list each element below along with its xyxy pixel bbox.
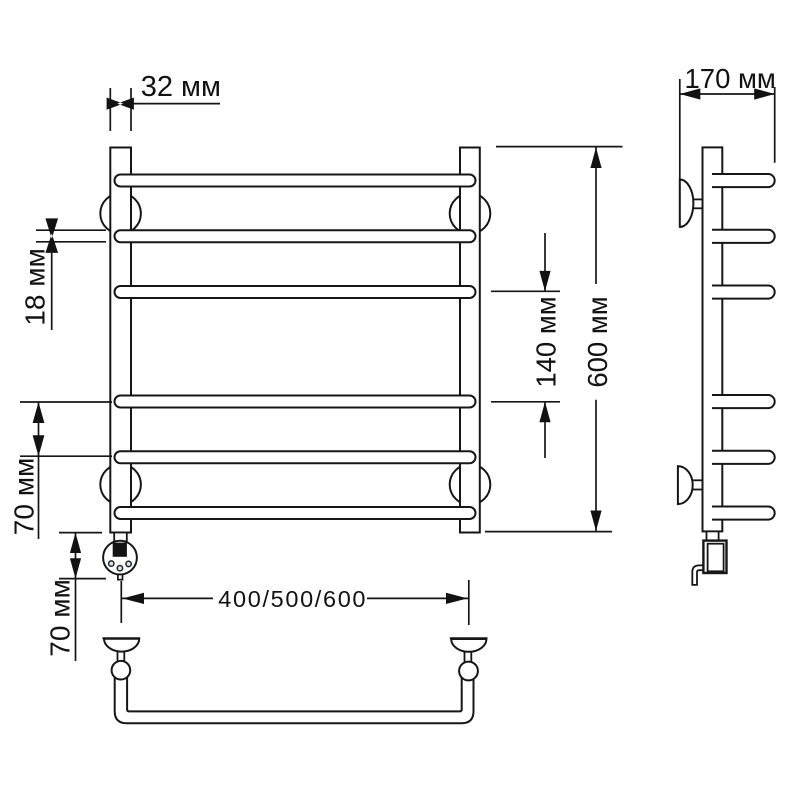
dim 400/500/600 dimension line left part xyxy=(121,597,213,599)
side view: top wall dome neck xyxy=(692,199,704,208)
wall bracket top-left xyxy=(100,193,141,234)
dim 140mm arrowhead up xyxy=(539,402,550,422)
dim 32mm extension line right xyxy=(130,88,132,131)
bottom view: left dome bowl xyxy=(104,639,139,652)
dim 32mm extension line left xyxy=(109,88,111,131)
svg-text:18 мм: 18 мм xyxy=(20,248,51,325)
dim 170mm extension line left xyxy=(679,79,681,180)
wall bracket bottom-right xyxy=(450,464,491,505)
bottom view: right dome top plate xyxy=(450,637,488,639)
bottom view: left pivot ball xyxy=(112,661,131,680)
dim 32mm leader line xyxy=(133,103,220,105)
dim 400/500/600 extension line right xyxy=(468,580,470,625)
side view bar 6 xyxy=(712,507,775,520)
indicator dot left xyxy=(109,561,114,566)
side view bar 4 xyxy=(712,395,775,408)
dim 140mm lower tail xyxy=(544,402,546,458)
svg-text:400/500/600: 400/500/600 xyxy=(218,586,367,612)
dim 600mm arrowhead up xyxy=(590,148,601,169)
dim 70mm#1 extension line top xyxy=(20,401,112,403)
wall bracket bottom-left xyxy=(100,464,141,505)
dim 170mm extension line right xyxy=(774,87,776,163)
dim 18mm extension line bottom xyxy=(36,241,106,243)
dim 70mm#1 extension line bottom xyxy=(20,455,112,457)
svg-text:600 мм: 600 мм xyxy=(582,296,613,387)
dim 18mm arrowhead pair (bowtie) xyxy=(45,218,58,253)
svg-text:70 мм: 70 мм xyxy=(44,579,75,656)
bottom view: left dome neck xyxy=(118,650,125,662)
side view: power cable xyxy=(692,565,703,585)
dim 170mm arrowhead left xyxy=(680,88,701,99)
dim 70mm#2 arrowhead up xyxy=(70,533,81,553)
bar 5 xyxy=(115,451,476,463)
bar 2 xyxy=(115,230,476,242)
dim 170mm dimension line xyxy=(680,93,775,95)
bottom view: right pivot ball xyxy=(459,662,478,681)
bar 1 xyxy=(115,175,476,187)
heating element black cap xyxy=(113,543,127,557)
dim 70mm#2 arrowhead down xyxy=(70,558,81,578)
left vertical rail xyxy=(110,148,131,533)
side view: bottom wall dome neck xyxy=(692,480,704,489)
dim 140mm arrowhead down xyxy=(539,271,550,291)
side view: heater body inner xyxy=(708,544,724,572)
dim 400/500/600 arrowhead left xyxy=(123,593,145,604)
dim 70mm#2 extension line top xyxy=(59,532,102,534)
wall bracket top-right xyxy=(450,193,491,234)
svg-text:32 мм: 32 мм xyxy=(141,71,221,103)
svg-text:170 мм: 170 мм xyxy=(685,63,776,94)
side view bar 3 xyxy=(712,286,775,299)
side view: heater neck xyxy=(707,531,719,540)
dim 140mm extension line bottom xyxy=(491,401,560,403)
side view bar 1 xyxy=(712,174,775,187)
svg-text:140 мм: 140 мм xyxy=(531,296,562,387)
dim 400/500/600 dimension line right part xyxy=(367,597,469,599)
dim 32mm arrowhead pair (bowtie) xyxy=(107,98,134,110)
dim 600mm arrowhead down xyxy=(590,511,601,532)
side view: rail profile xyxy=(703,147,723,531)
dim 70mm#2 dimension line xyxy=(75,533,77,661)
side view bar 2 xyxy=(712,230,775,243)
bottom view: right dome bowl xyxy=(451,639,486,652)
svg-text:70 мм: 70 мм xyxy=(9,458,40,535)
bottom view: bar tube inner edge xyxy=(127,677,462,711)
heater neck (front) xyxy=(114,533,127,542)
dim 18mm extension line top xyxy=(36,229,106,231)
dim 170mm arrowhead right xyxy=(754,88,775,99)
bottom view: right dome neck xyxy=(465,650,472,663)
dim 600mm extension line bottom xyxy=(485,531,612,533)
bottom view: left dome top plate xyxy=(102,637,140,639)
dim 140mm upper tail xyxy=(544,233,546,291)
side view: heater body outer xyxy=(703,541,726,573)
dim 70mm#1 arrowhead down xyxy=(33,435,45,456)
dim 70mm#1 arrowhead up xyxy=(33,402,45,423)
dim 70mm#1 dimension line xyxy=(38,402,40,539)
side view bar 5 xyxy=(712,451,775,464)
dim 18mm tail line xyxy=(51,253,53,330)
bar 3 xyxy=(115,286,476,298)
dim 400/500/600 arrowhead right xyxy=(446,593,468,604)
dim 600mm dimension line upper xyxy=(595,148,597,285)
right vertical rail xyxy=(460,148,480,533)
dim 600mm extension line top xyxy=(496,146,623,148)
heater drain stub xyxy=(118,575,123,580)
dim 140mm extension line top xyxy=(491,290,560,292)
heating element body (front) xyxy=(103,541,137,575)
indicator dot middle xyxy=(117,566,122,571)
dim 400/500/600 extension line left xyxy=(120,581,122,623)
bottom view: bar tube outer edge xyxy=(115,677,474,723)
bar 6 xyxy=(115,507,476,519)
dim 70mm#2 extension line bottom xyxy=(59,578,106,580)
dim 600mm dimension line lower xyxy=(595,400,597,531)
indicator dot right xyxy=(126,561,131,566)
side view: bottom wall dome xyxy=(678,466,693,504)
bar 4 xyxy=(115,396,476,408)
side view: top wall dome xyxy=(680,180,694,227)
